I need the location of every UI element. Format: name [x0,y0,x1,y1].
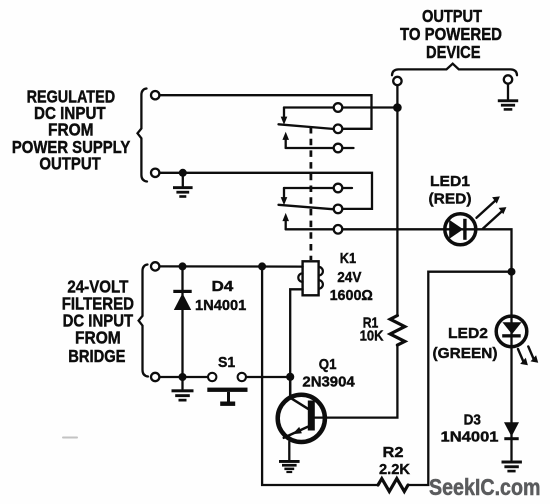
resistor R2 2.2K [378,479,408,492]
label: REGULATED DC INPUT FROM POWER SUPPLY OUTPUT [12,86,131,173]
label: R2 value [379,444,410,478]
wire: K1 coil bottom to Q1 collector node [290,289,302,373]
label: Q1 2N3904 [302,356,355,390]
wire: R2 to LED cathode node [408,272,508,485]
ground: D3 [502,461,522,473]
Q1 emitter lead with arrow [284,427,308,438]
relay contact set 2: NC contact [284,187,334,189]
svg-text:1N4001: 1N4001 [195,297,247,314]
svg-text:Q1: Q1 [319,356,337,373]
diode D3 1N4001 [504,422,519,440]
ground: Q1 emitter [279,460,300,473]
relay contact set 1: NO contact [286,147,334,149]
relay contact set 1: NC contact [284,106,334,108]
wire: NO contact 2 through LED1 to right rail [342,229,511,267]
wire: ground tap stem [182,177,184,187]
label: D4 value [195,278,247,314]
junction: LED1/LED2/R2 node [508,268,516,276]
svg-text:D3: D3 [464,411,481,428]
wire: regulated input + to relay pole 1 [160,95,372,129]
arrows: LED2 emission [518,349,524,363]
svg-text:2N3904: 2N3904 [302,374,355,391]
label: D3 value [441,411,500,445]
relay armature 1 [279,124,335,129]
svg-text:1N4001: 1N4001 [441,429,500,446]
label: R1 value [360,314,384,344]
relay coil K1 [303,261,319,295]
svg-text:2.2K: 2.2K [379,461,410,478]
label: 24-VOLT FILTERED DC INPUT FROM BRIDGE [62,276,134,366]
LED1 [445,214,476,245]
wire: R1 to Q1 base [315,345,398,418]
LED2 [496,316,527,347]
Q1 base bar [308,401,315,431]
svg-text:SeekIC.com: SeekIC.com [429,474,541,500]
arrow: contact 2 actuation down [283,188,285,198]
switch S1 [218,354,236,371]
wire: node A down to R1 [396,112,398,316]
svg-text:R2: R2 [383,444,404,461]
wire: regulated input - to relay pole 2 [160,173,373,209]
svg-text:DEVICE: DEVICE [426,42,481,62]
label: LED1 (RED) [429,173,472,208]
wire: 24V input - to S1 [160,376,208,378]
junction: D4 cathode node [179,262,187,270]
arrow: contact 1 actuation down [283,108,285,118]
relay armature 2 [279,205,335,210]
transistor Q1 [278,395,325,442]
wire: output terminal to ground [507,84,509,99]
terminal: 24V input + [151,262,159,270]
svg-text:10K: 10K [360,327,384,344]
brace over output terminals [392,64,517,75]
terminal: output ground side [504,75,512,83]
brace: regulated dc input [138,89,148,182]
resistor R1 10K [390,316,405,346]
terminal: regulated input + [151,91,159,99]
terminal: output + [393,77,401,85]
label: OUTPUT TO POWERED DEVICE [400,6,502,62]
terminal: regulated input - [151,169,159,177]
ground: regulated input return [173,186,193,198]
svg-text:D4: D4 [212,278,234,295]
junction: K1 / S1 / Q1 collector node [286,373,294,381]
brace: 24V filtered input [139,265,148,377]
relay contact set 2: NO contact to LED1 [286,228,334,230]
junction: input - ground tap [179,169,187,177]
svg-text:OUTPUT: OUTPUT [39,154,101,174]
svg-text:LED1: LED1 [430,173,471,190]
label: LED2 (GREEN) [433,325,498,362]
svg-text:S1: S1 [218,354,236,371]
svg-text:LED2: LED2 [448,325,488,342]
wire: +24V rail to relay coil [160,265,303,268]
terminal: 24V input - [151,373,159,381]
ground: 24V input return [172,389,194,401]
wire: ground stem [181,381,183,389]
wire: R2 branch from +24V rail down [262,270,378,485]
svg-text:BRIDGE: BRIDGE [68,346,125,366]
svg-text:FROM: FROM [75,328,121,348]
wire: right rail through LED2 and D3 to ground [510,267,512,460]
junction: R2 branch node [258,262,266,270]
svg-text:K1: K1 [340,250,357,267]
wire: output + down to node A [396,85,398,104]
artifact: faint mark [63,437,77,439]
svg-text:(GREEN): (GREEN) [433,345,498,362]
arrow: contact 1 actuation up [285,140,287,149]
svg-text:(RED): (RED) [429,190,472,207]
wire: Q1 emitter to ground [288,442,290,461]
arrows: LED1 emission [477,200,497,218]
svg-text:1600Ω: 1600Ω [330,287,373,304]
label: K1 24V 1600ohm [330,250,373,304]
arrow: contact 2 actuation up [285,221,287,230]
ground: output device return [498,99,518,110]
wire: NC contact 1 to node A [342,106,394,108]
diode D4 1N4001 [181,270,183,377]
svg-text:24V: 24V [337,269,362,286]
wire: S1 to Q1 collector node [246,376,287,378]
relay actuation dashed link [309,127,312,260]
junction: D4 anode / ground node [179,373,187,381]
wire: Q1 collector lead [290,377,308,409]
junction: node A output [393,103,402,112]
